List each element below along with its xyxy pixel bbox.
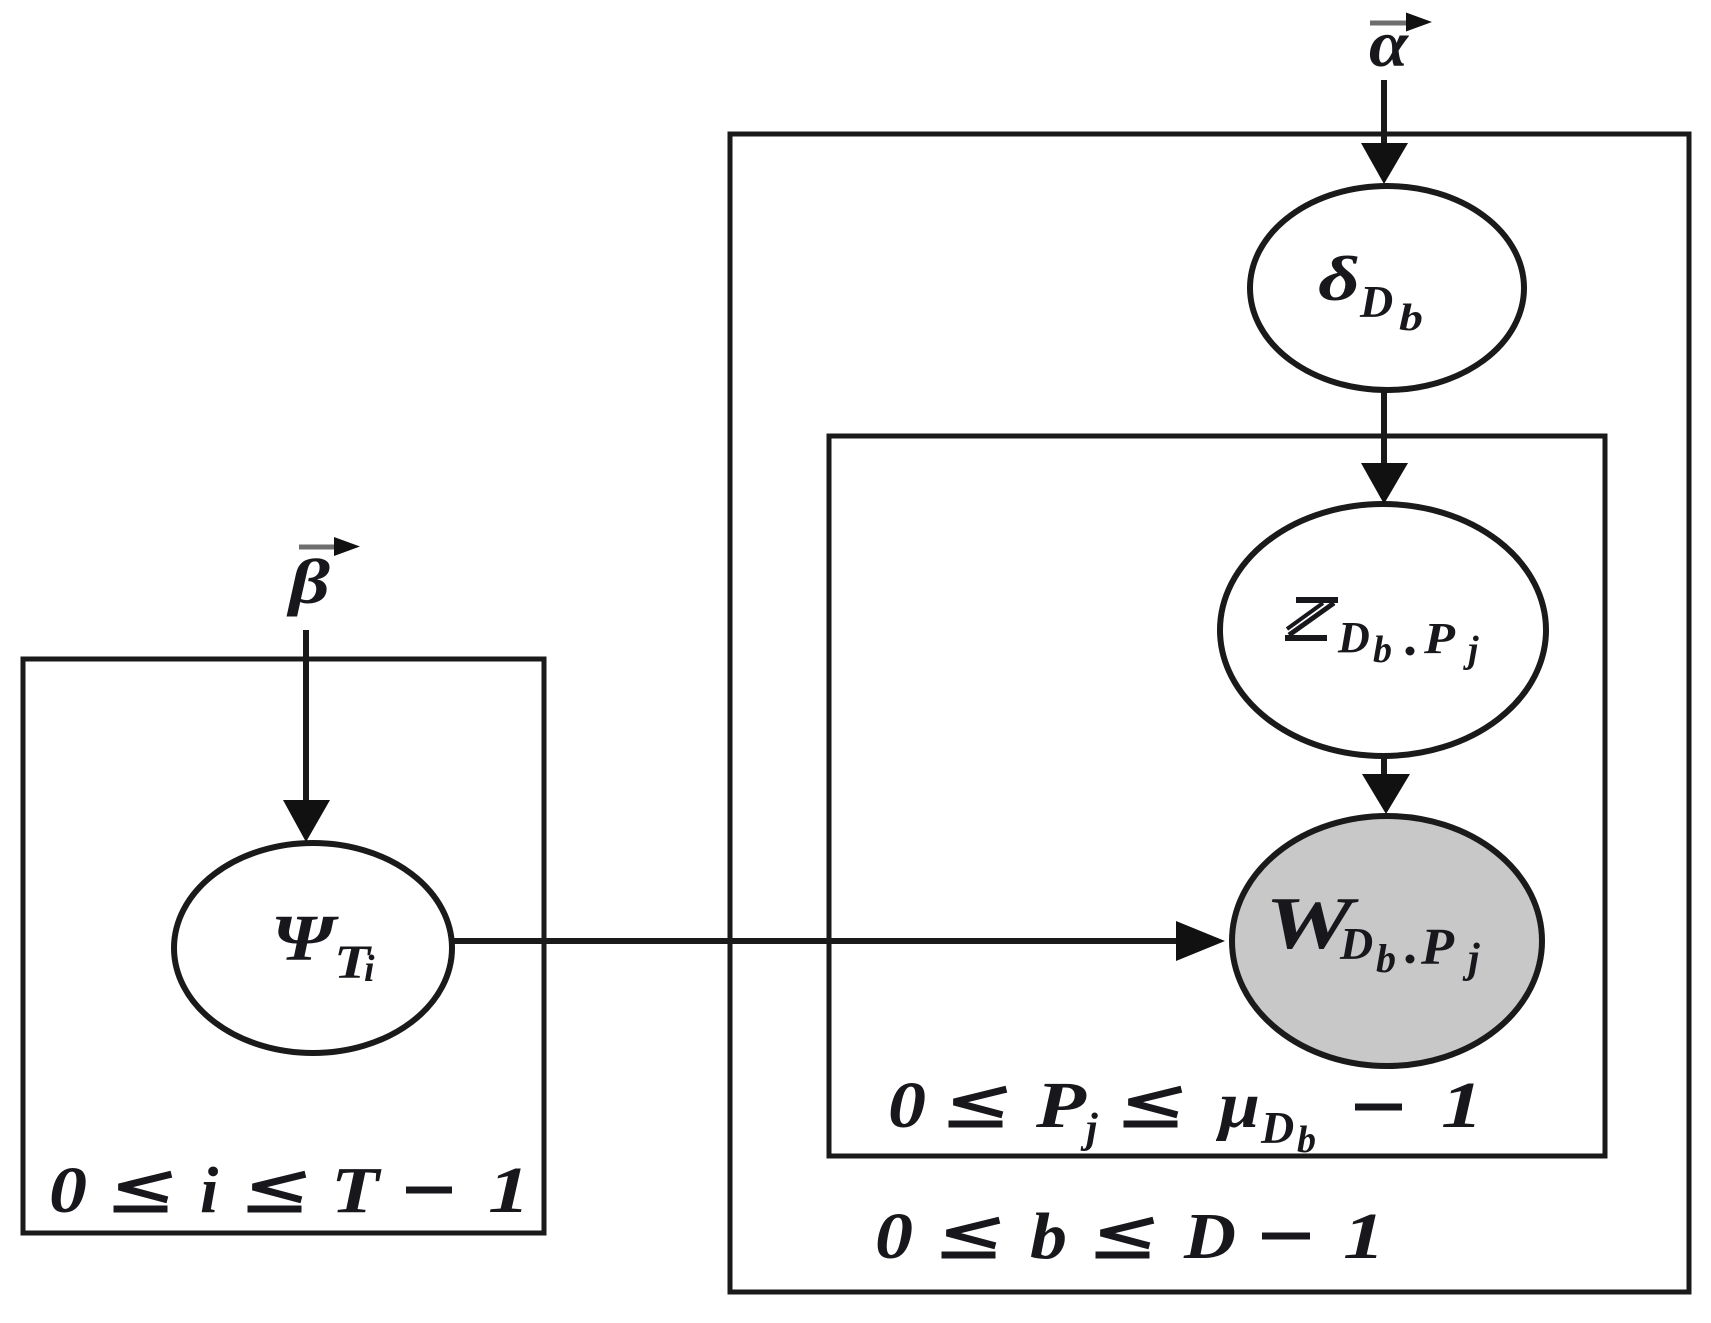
svg-text:δ: δ [1318, 243, 1360, 314]
svg-text:P: P [1420, 919, 1455, 976]
svg-text:0: 0 [888, 1069, 926, 1142]
svg-text:0: 0 [49, 1154, 87, 1227]
arrow Z to W [1362, 756, 1410, 814]
svg-text:β: β [286, 546, 330, 617]
node delta_Db (ellipse) [1250, 186, 1524, 390]
svg-text:1: 1 [488, 1154, 530, 1227]
svg-text:Ψ: Ψ [271, 902, 339, 975]
node Psi_Ti (ellipse) [174, 843, 452, 1053]
plate left: topic loop i [23, 659, 544, 1233]
arrow beta to Psi [283, 630, 330, 842]
svg-text:D: D [1339, 918, 1373, 969]
plate outer: document loop b [730, 134, 1689, 1292]
svg-text:b: b [1376, 936, 1396, 981]
svg-text:μ: μ [1216, 1069, 1260, 1142]
svg-text:T: T [331, 1154, 382, 1227]
label beta vector [286, 537, 360, 617]
node W_Db,Pj (shaded ellipse) [1232, 816, 1542, 1066]
svg-text:D: D [1183, 1200, 1236, 1273]
svg-text:D: D [1359, 276, 1393, 327]
svg-text:1: 1 [1441, 1069, 1483, 1142]
arrow delta to Z [1361, 390, 1408, 504]
node Z_Db,Pj (ellipse) [1220, 504, 1546, 756]
svg-text:P: P [1035, 1069, 1087, 1142]
arrow alpha to delta [1361, 80, 1408, 184]
label Z_Db,Pj (blackboard Z drawn) [1285, 600, 1338, 638]
svg-text:1: 1 [1343, 1200, 1385, 1273]
svg-text:0: 0 [875, 1200, 913, 1273]
svg-text:D: D [1337, 613, 1370, 662]
svg-text:i: i [364, 948, 375, 990]
svg-text:b: b [1030, 1200, 1067, 1273]
svg-text:b: b [1373, 629, 1392, 671]
svg-text:b: b [1399, 297, 1423, 339]
label alpha vector [1369, 8, 1432, 81]
plate inner: position loop P_j [829, 436, 1605, 1156]
svg-text:D: D [1260, 1102, 1294, 1153]
svg-text:P: P [1423, 614, 1456, 663]
svg-text:i: i [200, 1154, 219, 1227]
svg-text:α: α [1369, 8, 1410, 81]
arrow Psi to W [452, 921, 1225, 961]
svg-text:b: b [1297, 1119, 1316, 1161]
